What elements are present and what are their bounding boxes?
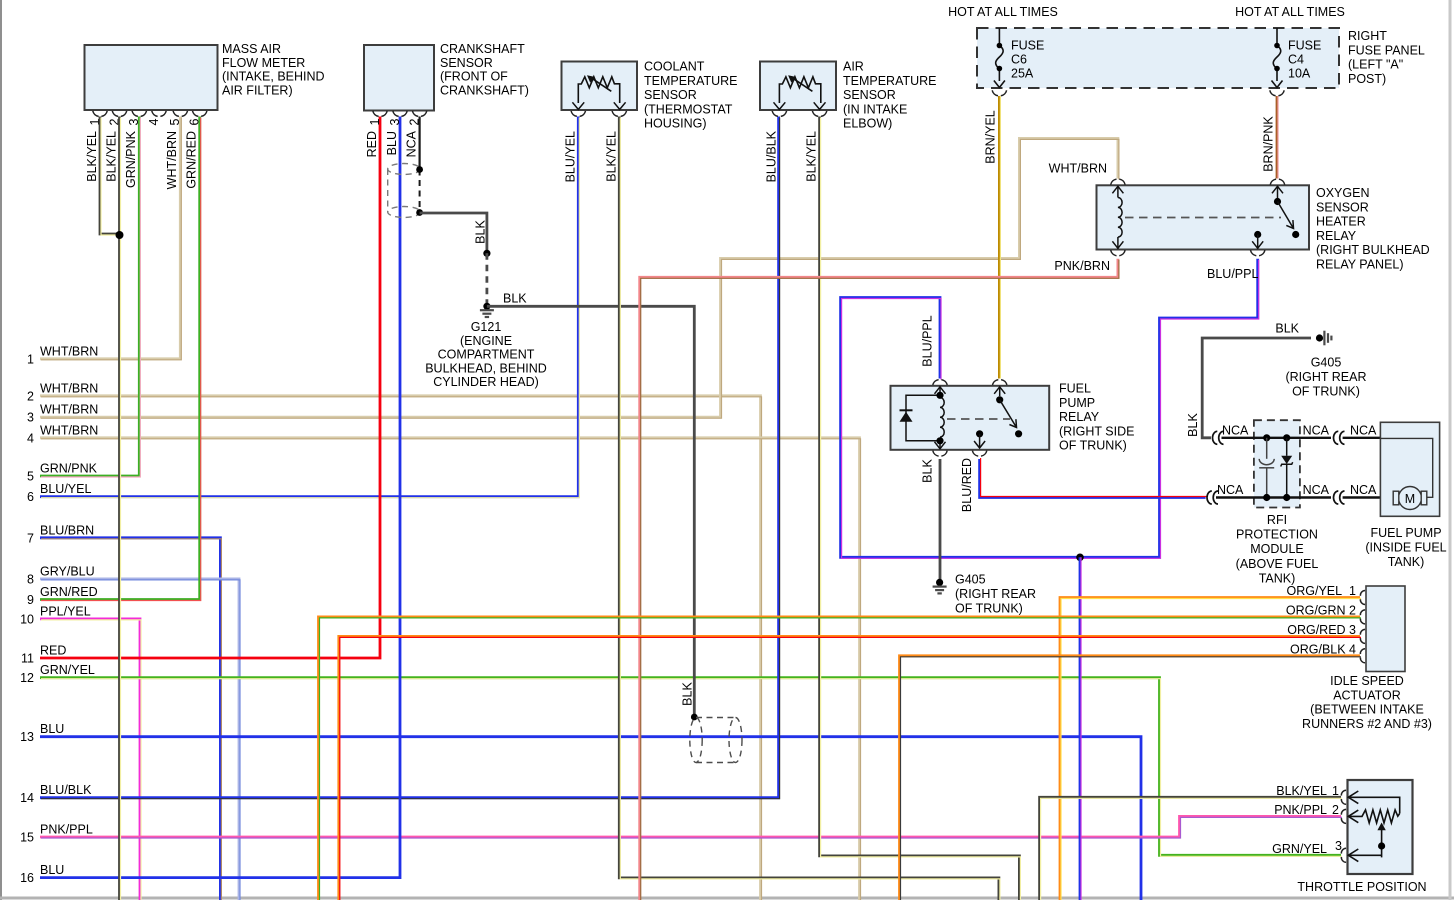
svg-text:PPL/YEL: PPL/YEL [40,604,91,618]
wire row10 PPL/YEL [40,619,141,900]
node 2 label [27,381,98,403]
shield cylinder row13 cable [690,718,742,763]
label PNK/PPL 2 [1274,803,1339,817]
MAF pin 6 connector [193,111,207,117]
svg-text:BLK/YEL: BLK/YEL [605,131,619,182]
svg-text:PUMP: PUMP [1059,396,1095,410]
wire row12 GRN/YEL to throttle position sensor pin3 [40,678,1342,857]
idle pin 2 connector [1360,610,1365,624]
svg-text:5: 5 [27,470,34,484]
svg-text:10: 10 [20,612,34,626]
svg-text:15: 15 [20,831,34,845]
svg-text:BLU/YEL: BLU/YEL [40,482,91,496]
svg-text:2: 2 [1332,803,1339,817]
svg-text:CRANKSHAFT): CRANKSHAFT) [440,83,529,97]
wire NCA row2 to fuel pump motor [1343,496,1395,498]
svg-text:WHT/BRN: WHT/BRN [40,423,98,437]
idle pin 3 connector [1360,629,1365,643]
svg-text:6: 6 [27,490,34,504]
junction dot coil bottom [936,437,943,444]
MAF pin 4 connector [152,111,166,117]
junction dot G405 right [1316,334,1323,341]
svg-text:FLOW METER: FLOW METER [222,56,305,70]
svg-text:BLK: BLK [1186,413,1200,437]
svg-text:ORG/BLK 4: ORG/BLK 4 [1290,642,1356,656]
svg-text:GRN/RED: GRN/RED [184,131,198,189]
svg-text:(RIGHT BULKHEAD: (RIGHT BULKHEAD [1316,243,1430,257]
svg-text:BLU/YEL: BLU/YEL [563,131,577,182]
wire ORG/YEL idle pin1 [1060,598,1361,900]
wire row16 BLU to crankshaft sensor pin3 [40,117,400,878]
svg-text:(ENGINE: (ENGINE [460,334,512,348]
svg-text:HEATER: HEATER [1316,215,1366,229]
fuse C4 arrow [1272,81,1283,88]
oxygen relay bottom-middle pin connector [1251,250,1265,256]
node 4 label [27,423,98,445]
node 8 label [27,564,95,586]
wire BLK from G121 to shield row13 [487,306,694,716]
node 14 label [20,783,92,805]
svg-text:G405: G405 [955,573,986,587]
coolant sensor label [644,60,738,131]
wire ORG/RED idle pin3 [339,636,1361,900]
svg-text:SENSOR: SENSOR [644,88,697,102]
svg-text:(LEFT "A": (LEFT "A" [1348,58,1403,72]
svg-text:9: 9 [27,593,34,607]
TPS pin 2 connector [1341,809,1346,823]
svg-text:25A: 25A [1011,67,1034,81]
svg-text:BLK: BLK [1275,322,1299,336]
svg-text:GRN/YEL: GRN/YEL [40,663,95,677]
fuse C6 [996,28,1004,81]
coolant pin BLK/YEL connector [612,111,626,117]
svg-text:ORG/YEL 1: ORG/YEL 1 [1287,584,1357,598]
shield dashed drain segment [419,170,421,213]
air temp sensor thermistor [779,77,820,103]
oxygen relay bottom-middle pin [1254,231,1261,238]
TPS pin3 arrow [1348,849,1358,862]
svg-text:NCA: NCA [1350,483,1377,497]
idle pin 1 connector [1360,591,1365,605]
svg-text:14: 14 [20,791,34,805]
svg-text:ORG/GRN 2: ORG/GRN 2 [1286,603,1356,617]
node 16 label [20,863,64,885]
wire row6 BLU/YEL to coolant sensor [40,117,579,498]
svg-text:4: 4 [147,118,161,125]
junction dot shield bottom [416,209,423,216]
svg-text:RELAY PANEL): RELAY PANEL) [1316,258,1404,272]
svg-text:RED: RED [365,131,379,157]
label ORG/YEL 1 [1287,584,1357,598]
fuse C4 label [1288,39,1321,81]
svg-text:(RIGHT REAR: (RIGHT REAR [1285,370,1366,384]
wire ORG/BLK idle pin4 [900,656,1362,900]
fuse C4 pin connector [1270,90,1284,96]
junction dot shield top [416,166,423,173]
svg-text:FUSE: FUSE [1011,39,1044,53]
wire BLU/RED fuel pump relay to RFI [980,458,1207,498]
oxygen sensor heater relay box [1097,185,1310,249]
svg-text:G121: G121 [471,320,502,334]
svg-text:BLK: BLK [680,682,694,706]
svg-text:BLK/YEL: BLK/YEL [1276,784,1327,798]
svg-text:PNK/BRN: PNK/BRN [1054,259,1110,273]
svg-text:BLK/YEL: BLK/YEL [805,131,819,182]
dashed wire BLK to ground [485,253,488,306]
fuel pump relay coil [940,398,944,438]
svg-text:(IN INTAKE: (IN INTAKE [843,102,907,116]
svg-text:RUNNERS #2 AND #3): RUNNERS #2 AND #3) [1302,717,1432,731]
fuel pump relay bottom-middle pin connector [972,451,986,457]
wire NCA row1 [1222,437,1332,439]
wire BLK/YEL TPS pin1 [1040,797,1342,900]
fuel pump relay dashed link [947,418,1010,420]
wire PNK/BRN oxygen relay to bottom [640,259,1119,900]
wire row3 WHT/BRN to oxygen sensor heater relay [40,138,1119,418]
svg-text:RELAY: RELAY [1059,410,1100,424]
svg-text:CYLINDER HEAD): CYLINDER HEAD) [433,375,539,389]
air temp pin BLK/YEL connector [812,111,826,117]
RFI zener diode branch [1281,438,1293,498]
TPS wiper dot [1378,842,1385,849]
svg-text:7: 7 [27,531,34,545]
throttle position sensor box [1348,780,1413,874]
svg-text:GRN/RED: GRN/RED [40,585,98,599]
junction dots NCA row2 [1263,494,1270,501]
svg-text:BLU/BLK: BLU/BLK [764,130,778,182]
crank pin 3 connector [393,111,407,117]
svg-text:C6: C6 [1011,53,1027,67]
wire BLK/YEL MAF pin2 [120,117,121,900]
svg-text:GRN/PNK: GRN/PNK [40,462,98,476]
fuel pump relay diode branch [906,395,940,441]
oxygen relay bottom-left pin connector [1111,250,1125,256]
frame right border [1449,0,1452,900]
crankshaft sensor box [364,45,434,111]
crank pin 1 connector [373,111,387,117]
node 5 label [27,462,98,484]
label ORG/RED 3 [1287,623,1356,637]
svg-text:BLU/RED: BLU/RED [960,458,974,512]
fuel pump relay bottom-left pin connector [933,451,947,457]
shield cylinder crankshaft cable [388,164,421,218]
fuse C4 [1273,28,1281,81]
coolant thermistor arrow head [587,75,595,82]
svg-text:BLK/YEL: BLK/YEL [85,131,99,182]
svg-text:RFI: RFI [1267,513,1287,527]
svg-text:BLK: BLK [503,292,527,306]
svg-text:NCA: NCA [1303,424,1330,438]
junction dot G121 [483,303,490,310]
svg-text:(INSIDE FUEL: (INSIDE FUEL [1365,541,1446,555]
svg-text:(FRONT OF: (FRONT OF [440,70,508,84]
svg-text:WHT/BRN: WHT/BRN [165,131,179,189]
junction dot BLU/PPL [1076,554,1084,562]
svg-text:BLU: BLU [40,863,64,877]
fuel pump relay top-left pin connector [933,380,947,386]
crankshaft sensor label [440,42,529,97]
svg-text:OF TRUNK): OF TRUNK) [1059,439,1127,453]
svg-text:TANK): TANK) [1388,555,1425,569]
svg-text:BULKHEAD, BEHIND: BULKHEAD, BEHIND [425,361,547,375]
fuel pump label [1365,526,1446,569]
fuel pump relay switch [996,396,1003,403]
coolant pin BLU/YEL connector [571,111,585,117]
svg-text:AIR FILTER): AIR FILTER) [222,83,293,97]
inline connector NCA row2 left [1207,491,1218,504]
junction dot G405 left [936,579,943,586]
TPS pin2 arrow [1348,810,1358,823]
air temp pin BLU/BLK connector [772,111,786,117]
svg-text:16: 16 [20,871,34,885]
fuse C6 label [1011,39,1044,81]
junction dot coil top [936,392,943,399]
oxygen relay top-right pin arrow [1272,186,1283,198]
junction dot shield row13 [691,714,698,721]
mass air flow meter label [222,42,325,97]
wire BRN/YEL fuse C6 to fuel pump relay [999,96,1000,379]
fuse C6 arrow [994,81,1005,88]
svg-text:8: 8 [27,572,34,586]
wire row5 GRN/PNK to MAF pin3 [40,117,140,478]
svg-text:FUSE PANEL: FUSE PANEL [1348,43,1425,57]
svg-text:RIGHT: RIGHT [1348,29,1387,43]
crank pin 2 connector [412,111,426,117]
node 11 label [21,644,66,666]
inline connector NCA row1 left [1213,431,1224,444]
fuel pump relay coil arrows [935,387,946,449]
MAF pin 2 connector [112,111,126,117]
svg-text:THROTTLE POSITION: THROTTLE POSITION [1297,880,1426,894]
svg-text:3: 3 [127,118,141,125]
svg-text:OF TRUNK): OF TRUNK) [955,602,1023,616]
node 13 label [20,722,64,744]
coolant thermistor leg arrows [572,102,625,109]
svg-text:IDLE SPEED: IDLE SPEED [1330,674,1404,688]
svg-text:13: 13 [20,730,34,744]
svg-text:BLU: BLU [40,722,64,736]
svg-text:ELBOW): ELBOW) [843,117,892,131]
svg-text:BLU/BRN: BLU/BRN [40,523,94,537]
svg-text:M: M [1405,492,1415,506]
svg-text:PNK/PPL: PNK/PPL [1274,803,1327,817]
TPS pin1 arrow [1348,791,1358,804]
node 10 label [20,604,91,626]
svg-text:BLK/YEL: BLK/YEL [104,131,118,182]
svg-text:NCA: NCA [1217,483,1244,497]
ground G405 right symbol [1324,331,1331,346]
svg-text:BRN/YEL: BRN/YEL [983,110,997,164]
wire NCA row2 [1216,496,1331,498]
MAF pin 3 connector [132,111,146,117]
svg-text:FUEL PUMP: FUEL PUMP [1370,526,1441,540]
wire row14 BLU/BLK to air temperature sensor [40,117,780,799]
MAF pin 1 connector [93,111,107,117]
node 1 label [27,344,98,366]
wire BRN/PNK fuse C4 to oxygen relay [1277,96,1278,179]
wire row2 WHT/BRN [40,396,762,900]
svg-text:3: 3 [388,118,402,125]
junction dot BLK [483,250,490,257]
wire row9 GRN/RED to MAF pin6 [40,117,201,601]
wire ORG/GRN idle pin2 [319,617,1362,900]
RFI module label [1236,513,1319,585]
svg-text:(THERMOSTAT: (THERMOSTAT [644,102,733,116]
svg-text:3: 3 [1335,839,1342,853]
node 12 label [20,663,95,685]
junction dot MAF pins 1-2 [116,231,124,239]
node 15 label [20,823,93,845]
wire BLK/YEL air temp to bottom [820,117,1021,900]
junction dots NCA row1 [1263,434,1270,441]
svg-text:NCA: NCA [1350,424,1377,438]
wire NCA row1 to fuel pump [1343,437,1381,439]
oxygen relay switch [1274,198,1281,205]
air temp sensor label [843,60,937,131]
svg-text:BLU/PPL: BLU/PPL [1207,267,1258,281]
wire row13 BLU [40,737,1141,900]
svg-text:CRANKSHAFT: CRANKSHAFT [440,42,525,56]
idle pin 4 connector [1360,649,1365,663]
TPS wiper arrow [1377,823,1385,831]
fuel pump relay bottom-middle pin [976,430,983,437]
svg-text:TEMPERATURE: TEMPERATURE [843,74,937,88]
svg-text:(RIGHT SIDE: (RIGHT SIDE [1059,424,1134,438]
wire row11 RED to crankshaft sensor pin1 [40,117,380,659]
svg-text:BLK: BLK [920,459,934,483]
svg-text:NCA: NCA [404,130,418,157]
inline connector NCA row1 right [1334,431,1345,444]
right fuse panel box [977,28,1339,88]
wire BLK/YEL coolant to bottom [619,117,1000,900]
svg-text:PNK/PPL: PNK/PPL [40,823,93,837]
svg-text:COOLANT: COOLANT [644,60,705,74]
fuel pump relay top-right pin arrow [994,387,1005,396]
fuse C4 dots [1274,43,1280,49]
fuel pump relay box [891,386,1050,450]
svg-text:6: 6 [187,118,201,125]
air temp thermistor leg arrows [774,102,826,109]
svg-text:BLU/BLK: BLU/BLK [40,783,92,797]
wire row4 WHT/BRN [40,438,861,900]
svg-text:ACTUATOR: ACTUATOR [1333,688,1401,702]
svg-text:HOT AT ALL TIMES: HOT AT ALL TIMES [1235,5,1345,19]
svg-text:(RIGHT REAR: (RIGHT REAR [955,587,1036,601]
svg-text:(INTAKE, BEHIND: (INTAKE, BEHIND [222,70,325,84]
frame bottom border [0,897,1454,900]
svg-text:12: 12 [20,671,34,685]
oxygen relay label [1316,186,1430,272]
wire row15 PNK/PPL to throttle position sensor pin2 [40,816,1342,838]
coolant temperature sensor box [562,62,638,111]
frame left border [0,0,2,900]
TPS pin 1 connector [1341,790,1346,804]
svg-text:G405: G405 [1311,356,1342,370]
mass air flow meter box [85,45,218,110]
TPS potentiometer [1348,797,1399,857]
oxygen relay coil [1118,198,1122,238]
oxygen relay top-right pin connector [1270,179,1284,185]
svg-text:OXYGEN: OXYGEN [1316,186,1370,200]
oxygen relay top-left pin connector [1111,179,1125,185]
svg-text:GRY/BLU: GRY/BLU [40,564,95,578]
svg-text:5: 5 [168,118,182,125]
label BLK/YEL 1 [1276,784,1339,798]
wire BLK from shield to G121 [420,213,487,253]
MAF pin 5 connector [173,111,187,117]
svg-text:HOUSING): HOUSING) [644,117,707,131]
TPS pin 3 connector [1341,848,1346,862]
wire BLK RFI to G405 right [1202,338,1311,438]
svg-text:MODULE: MODULE [1250,542,1303,556]
wire BLU/PPL oxygen relay to fuel pump relay [841,259,1259,559]
ground G121 text [425,320,547,389]
svg-text:WHT/BRN: WHT/BRN [40,344,98,358]
node 6 label [27,482,91,504]
right fuse panel label [1348,29,1425,86]
svg-text:BLU: BLU [385,131,399,155]
svg-text:FUEL: FUEL [1059,382,1091,396]
wire row8 GRY/BLU [40,579,240,900]
svg-text:1: 1 [1332,784,1339,798]
svg-text:COMPARTMENT: COMPARTMENT [438,348,535,362]
wire NCA shield drain crankshaft [419,117,421,170]
fuel pump motor M [1393,487,1427,510]
air temp thermistor arrow head [788,75,796,82]
svg-text:GRN/PNK: GRN/PNK [124,130,138,188]
wire BLU/PPL drop to bottom [1080,557,1081,900]
svg-text:FUSE: FUSE [1288,39,1321,53]
svg-text:SENSOR: SENSOR [843,88,896,102]
ground G405 left symbol [933,587,947,594]
fuel pump box [1380,422,1439,516]
svg-text:SENSOR: SENSOR [1316,200,1369,214]
RFI capacitor branch [1259,438,1274,498]
svg-text:RED: RED [40,644,66,658]
wire BLK fuel pump relay to G405 [939,459,942,582]
svg-text:ORG/RED 3: ORG/RED 3 [1287,623,1356,637]
fuel pump relay top-right pin connector [993,380,1007,386]
idle speed actuator box [1366,586,1405,672]
svg-text:3: 3 [27,411,34,425]
svg-text:BLK: BLK [473,220,487,244]
ground G405 left text [955,573,1036,616]
wire row1 WHT/BRN to MAF pin5 [40,117,181,360]
svg-text:PROTECTION: PROTECTION [1236,528,1318,542]
svg-text:11: 11 [21,652,34,666]
svg-text:2: 2 [27,389,34,403]
node 7 label [27,523,94,545]
fuel pump relay label [1059,382,1134,453]
svg-text:HOT AT ALL TIMES: HOT AT ALL TIMES [948,5,1058,19]
svg-text:RELAY: RELAY [1316,229,1357,243]
svg-text:GRN/YEL: GRN/YEL [1272,842,1327,856]
svg-text:(ABOVE FUEL: (ABOVE FUEL [1236,557,1319,571]
svg-text:1: 1 [27,352,34,366]
svg-text:4: 4 [27,431,34,445]
node 9 label [27,585,98,607]
svg-text:C4: C4 [1288,53,1304,67]
svg-text:NCA: NCA [1303,483,1330,497]
label GRN/YEL 3 [1272,839,1342,856]
svg-text:(BETWEEN INTAKE: (BETWEEN INTAKE [1310,703,1424,717]
fuel pump internal wire [1380,438,1432,497]
svg-text:TEMPERATURE: TEMPERATURE [644,74,738,88]
svg-text:POST): POST) [1348,72,1386,86]
fuse C6 pin connector [992,90,1006,96]
svg-text:NCA: NCA [1222,424,1249,438]
svg-text:OF TRUNK): OF TRUNK) [1292,385,1360,399]
